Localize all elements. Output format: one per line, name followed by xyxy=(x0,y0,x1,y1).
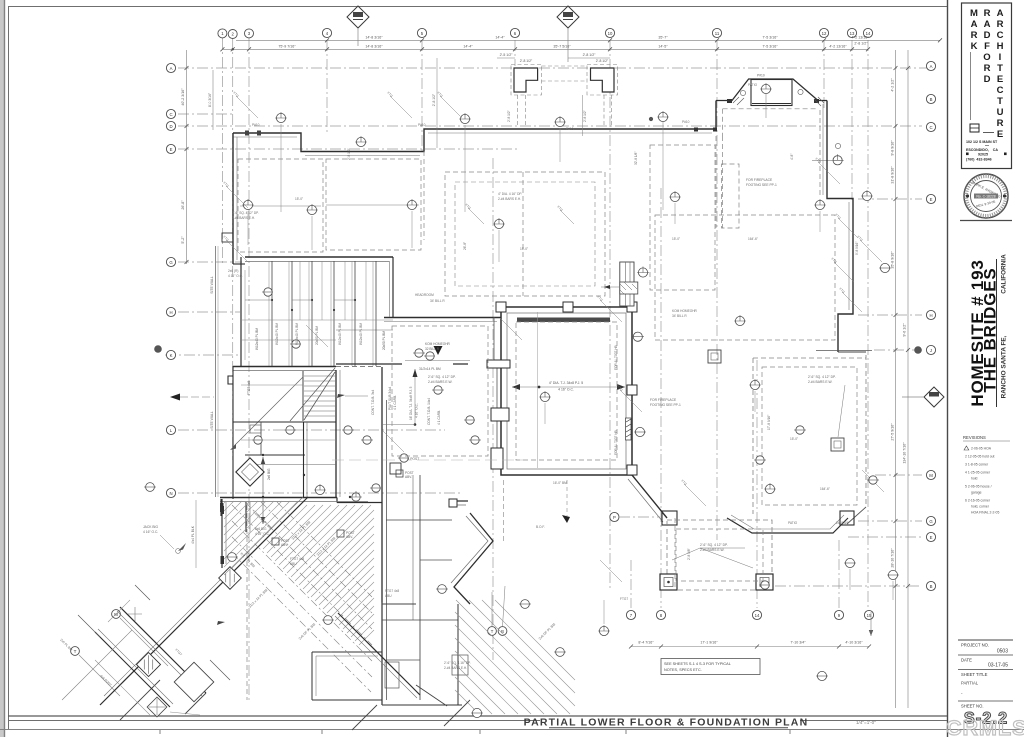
svg-text:JACK BIG: JACK BIG xyxy=(143,525,158,529)
svg-text:2'-6" SQ. 4 12" DP.: 2'-6" SQ. 4 12" DP. xyxy=(700,543,728,547)
svg-text:2'-8 1/2": 2'-8 1/2" xyxy=(583,110,587,122)
footing dashed right wall xyxy=(865,355,867,507)
svg-text:164'-6": 164'-6" xyxy=(748,237,758,241)
svg-text:14'-8 3/16": 14'-8 3/16" xyxy=(365,36,383,40)
stair run arrow extended xyxy=(234,377,303,446)
svg-text:ABU: ABU xyxy=(385,594,392,598)
deck joists lower field xyxy=(263,505,374,645)
FILLER DETAILS xyxy=(241,97,879,501)
project no section xyxy=(958,639,1013,641)
svg-text:A: A xyxy=(170,66,173,71)
svg-text:34' BILL R: 34' BILL R xyxy=(672,314,687,318)
svg-text:FTG7 4x8: FTG7 4x8 xyxy=(385,589,399,593)
grid bubbles right column xyxy=(926,61,935,590)
porch dashed outline xyxy=(667,520,772,590)
svg-text:A: A xyxy=(930,64,933,69)
svg-text:92025: 92025 xyxy=(978,153,988,157)
svg-text:P#10: P#10 xyxy=(566,127,574,131)
svg-text:27'-5 9/16": 27'-5 9/16" xyxy=(891,423,895,441)
svg-text:ESCONDIDO, CA: ESCONDIDO, CA xyxy=(966,148,998,152)
svg-text:H: H xyxy=(929,313,932,318)
deck leader arrow xyxy=(337,394,345,398)
svg-text:2'-8 1/2": 2'-8 1/2" xyxy=(432,93,436,106)
svg-text:FOOTING SEE PP-1: FOOTING SEE PP-1 xyxy=(650,403,681,407)
left border line xyxy=(8,6,10,729)
top dim ticks xyxy=(220,38,942,51)
pier bay right L-pier xyxy=(587,65,618,128)
svg-text:7'-10 3/4": 7'-10 3/4" xyxy=(790,641,806,645)
bay bottom angled wall xyxy=(727,518,848,533)
closet divider walls xyxy=(272,261,376,366)
svg-text:P: P xyxy=(613,515,616,520)
bottom border line B left segment xyxy=(8,720,540,722)
svg-text:HEADROOM: HEADROOM xyxy=(415,293,434,297)
svg-text:15'-0": 15'-0" xyxy=(295,197,303,201)
misc dashed connectors xyxy=(674,518,676,590)
closet dots xyxy=(271,299,356,311)
svg-text:C: C xyxy=(169,112,172,117)
svg-text:24'-8 3/4": 24'-8 3/4" xyxy=(836,521,849,525)
deck pier rotated square xyxy=(236,458,264,486)
svg-text:2-06-05 HOA: 2-06-05 HOA xyxy=(971,447,992,451)
svg-text:2-#4 BARS E.H.: 2-#4 BARS E.H. xyxy=(498,197,521,201)
svg-text:ABV.: ABV. xyxy=(346,535,353,539)
top connection xyxy=(336,366,382,368)
callout inner marks xyxy=(144,111,899,713)
svg-text:4 1-25-05 corner: 4 1-25-05 corner xyxy=(965,471,991,475)
top dim texts xyxy=(278,36,869,49)
right border line xyxy=(947,0,949,737)
svg-text:K: K xyxy=(170,353,173,358)
svg-text:PARTIAL: PARTIAL xyxy=(961,681,979,686)
great room outer wall xyxy=(501,307,632,475)
svg-text:2x6 BIG: 2x6 BIG xyxy=(267,468,271,480)
svg-text:HOA FINAL 2-2-05: HOA FINAL 2-2-05 xyxy=(971,511,999,515)
svg-text:2'-6" SQ. 4 12" DP.: 2'-6" SQ. 4 12" DP. xyxy=(428,375,456,379)
svg-text:T: T xyxy=(997,96,1003,107)
bottom border line A xyxy=(8,715,947,717)
svg-text:2'-8 1/2": 2'-8 1/2" xyxy=(583,53,597,57)
svg-text:FOR AL T007 HB: FOR AL T007 HB xyxy=(614,345,618,370)
block left wall mid with jogs xyxy=(228,366,233,499)
svg-text:31'-8 9/16": 31'-8 9/16" xyxy=(891,166,895,184)
svg-text:14: 14 xyxy=(755,613,760,618)
porch inner dashed xyxy=(676,529,763,581)
extra callouts row mid xyxy=(352,493,360,501)
kitchen bottom wall segments xyxy=(336,363,468,365)
filled marker at K xyxy=(154,345,162,353)
callout leaders xyxy=(248,122,893,624)
left thick wall lines xyxy=(381,367,383,705)
svg-text:B: B xyxy=(930,97,933,102)
top secondary dims xyxy=(497,57,610,59)
svg-text:FOR FIREPLACE: FOR FIREPLACE xyxy=(746,178,773,182)
kitchen dashed footing xyxy=(392,326,488,456)
svg-text:P/U/T SUB 34x4: P/U/T SUB 34x4 xyxy=(388,386,392,410)
svg-text:15'-0": 15'-0" xyxy=(790,437,798,441)
svg-text:K: K xyxy=(971,41,978,52)
post squares on beams xyxy=(272,538,279,545)
DIMENSIONS xyxy=(181,36,942,708)
svg-text:E: E xyxy=(997,129,1003,140)
grid lines horizontal (dash-dot) xyxy=(165,68,938,586)
deck area bubbles xyxy=(112,610,121,619)
TITLE BLOCK xyxy=(958,3,1013,728)
pier bay connecting dashes xyxy=(542,80,588,82)
left scan edge strip xyxy=(0,0,4,737)
corner stub diagonals xyxy=(78,585,230,680)
corner second diagonal wall xyxy=(95,632,170,707)
svg-text:9'-6 1/2": 9'-6 1/2" xyxy=(903,323,907,337)
svg-text:H: H xyxy=(169,310,172,315)
fixtures xyxy=(385,662,399,688)
svg-text:2'-6" SQ. 4 12" DP.: 2'-6" SQ. 4 12" DP. xyxy=(232,211,259,215)
svg-text:15'-0": 15'-0" xyxy=(672,237,680,241)
great room inner face xyxy=(507,313,626,469)
svg-text:CALIFORNIA: CALIFORNIA xyxy=(1001,254,1008,294)
svg-text:SITE WALL: SITE WALL xyxy=(210,411,214,429)
svg-text:75'-9 7/16": 75'-9 7/16" xyxy=(278,45,296,49)
grid bubbles top row xyxy=(218,28,873,38)
svg-text:D: D xyxy=(984,74,991,85)
grid bubbles left column xyxy=(166,63,175,497)
corner small rotated square xyxy=(147,697,167,717)
svg-text:35'-8 9/16": 35'-8 9/16" xyxy=(891,251,895,269)
svg-text:164'-6": 164'-6" xyxy=(820,487,830,491)
svg-text:4 16" O.C.: 4 16" O.C. xyxy=(255,532,270,536)
fireplace dashed rect xyxy=(722,164,740,228)
svg-text:P#10: P#10 xyxy=(682,120,690,124)
svg-text:9'-8 9/16": 9'-8 9/16" xyxy=(855,242,859,255)
left pier at wall xyxy=(222,233,233,242)
svg-text:31/2x14 PL BM: 31/2x14 PL BM xyxy=(419,367,441,371)
svg-text:W12x40 PL BM: W12x40 PL BM xyxy=(359,323,363,345)
inner horizontals xyxy=(386,519,452,521)
notes box xyxy=(661,659,760,675)
stair diagonal xyxy=(304,372,335,420)
svg-text:20x50 PL BM: 20x50 PL BM xyxy=(315,326,319,345)
leader from deck bubbles xyxy=(120,618,168,666)
svg-text:R: R xyxy=(997,118,1004,129)
svg-text:ABV.: ABV. xyxy=(405,475,412,479)
rule right of THE BRIDGES xyxy=(996,259,998,407)
svg-text:FOR FIREPLACE: FOR FIREPLACE xyxy=(650,398,677,402)
key diamond 1 xyxy=(347,6,369,46)
svg-text:E: E xyxy=(930,197,933,202)
second stub wall xyxy=(245,502,247,532)
parallel lower edge line xyxy=(62,630,132,700)
svg-text:M: M xyxy=(970,8,978,19)
svg-text:CONT. T.O.B. 3x4: CONT. T.O.B. 3x4 xyxy=(371,390,375,415)
left wall of deck corner xyxy=(221,499,223,568)
upper-left wing top wall xyxy=(233,101,716,152)
svg-text:3 1-8-05 corner: 3 1-8-05 corner xyxy=(965,463,989,467)
svg-text:R: R xyxy=(984,8,991,19)
svg-text:B.O.F.: B.O.F. xyxy=(536,525,545,529)
svg-text:REVISIONS: REVISIONS xyxy=(963,435,986,440)
patio dashed footing xyxy=(716,109,820,228)
svg-text:2'-5 1/2": 2'-5 1/2" xyxy=(500,53,514,57)
patio bay trapezoid xyxy=(716,79,827,101)
svg-text:2 12-05-05 hold out: 2 12-05-05 hold out xyxy=(965,455,994,459)
mid horizontal double wall xyxy=(233,366,336,368)
svg-text:FTG7 4x8: FTG7 4x8 xyxy=(290,557,304,561)
porch columns xyxy=(660,574,773,590)
corner lower walls xyxy=(120,680,160,720)
svg-text:P#10: P#10 xyxy=(252,123,260,127)
svg-text:4 16" O.C.: 4 16" O.C. xyxy=(143,530,158,534)
svg-text:A: A xyxy=(971,19,978,30)
svg-text:T: T xyxy=(74,649,77,654)
svg-text:16'-0" BM: 16'-0" BM xyxy=(553,481,567,485)
deck main edge diagonal xyxy=(100,497,308,705)
dense block thin lines xyxy=(241,261,366,440)
svg-text:hold, corner: hold, corner xyxy=(971,505,990,509)
svg-text:C: C xyxy=(929,125,932,130)
svg-text:E: E xyxy=(997,74,1003,85)
closet mid line xyxy=(241,319,393,321)
deck dim texts rotated xyxy=(239,510,556,641)
interior vertical arrow xyxy=(262,457,264,524)
column leader dims xyxy=(672,548,753,568)
svg-text:4 16" O.C.: 4 16" O.C. xyxy=(228,274,243,278)
svg-text:40'-2 3/16": 40'-2 3/16" xyxy=(181,88,185,106)
mid vertical double xyxy=(303,422,305,497)
patio chimney box xyxy=(751,80,792,106)
hall line xyxy=(245,464,336,466)
left exterior wall xyxy=(232,133,234,264)
svg-text:2-#4 BARS E.W.: 2-#4 BARS E.W. xyxy=(700,548,725,552)
stair left wall xyxy=(302,371,304,421)
svg-text:2-#4 BARS E.H.: 2-#4 BARS E.H. xyxy=(232,216,255,220)
dining room inner dashed xyxy=(762,367,857,505)
right big room footing xyxy=(655,215,835,340)
svg-text:26'-8": 26'-8" xyxy=(463,242,467,250)
grid bubble P xyxy=(610,512,619,521)
svg-text:P#10: P#10 xyxy=(418,123,426,127)
svg-text:0503: 0503 xyxy=(997,649,1008,655)
corner hatched pier xyxy=(136,652,160,676)
svg-text:W12x40 PL BM: W12x40 PL BM xyxy=(255,328,259,350)
bottom sheet edge line xyxy=(0,729,1024,731)
svg-text:5 2-06-05 house /: 5 2-06-05 house / xyxy=(965,485,992,489)
svg-text:E: E xyxy=(170,147,173,152)
svg-text:1/4"=1'-0": 1/4"=1'-0" xyxy=(856,720,876,725)
svg-text:SHEET TITLE: SHEET TITLE xyxy=(961,672,988,677)
svg-text:ABV.: ABV. xyxy=(281,543,288,547)
svg-text:4" DIA. T.J. 34x8 P.J. 5: 4" DIA. T.J. 34x8 P.J. 5 xyxy=(549,381,583,385)
RIGHT WING (mostly unexcavated - dashed) xyxy=(660,355,866,590)
plan title underline xyxy=(549,727,788,729)
deck beam dashed lines xyxy=(232,502,372,692)
nook bay zigzag wall xyxy=(452,501,493,604)
svg-text:2'-8 1/2": 2'-8 1/2" xyxy=(520,59,533,63)
upper-left wing top wall inner face xyxy=(233,133,712,156)
svg-text:35'-7 5/16": 35'-7 5/16" xyxy=(553,45,571,49)
svg-text:T: T xyxy=(997,63,1003,74)
svg-text:N: N xyxy=(169,491,172,496)
edge hatched pier xyxy=(219,567,242,590)
block right wall xyxy=(335,370,337,497)
svg-text:DATE: DATE xyxy=(961,658,972,663)
svg-text:7'-5 3/16": 7'-5 3/16" xyxy=(762,45,778,49)
svg-text:PARTIAL LOWER FLOOR & FOUNDATI: PARTIAL LOWER FLOOR & FOUNDATION PLAN xyxy=(524,717,809,729)
svg-text:4" DIA. 4 16" DP.: 4" DIA. 4 16" DP. xyxy=(498,192,522,196)
svg-text:SEE SHEETS S-1 4 S-3 FOR TYPIC: SEE SHEETS S-1 4 S-3 FOR TYPICAL xyxy=(664,662,731,666)
svg-text:4'-10 3/16": 4'-10 3/16" xyxy=(845,641,863,645)
circle right of patio xyxy=(835,143,840,148)
wall tick marks upper-left xyxy=(245,131,249,136)
bottom border line B right segment xyxy=(800,720,947,722)
architect seal xyxy=(964,174,1008,218)
room 2 footing xyxy=(326,159,421,250)
block top double wall xyxy=(245,256,393,258)
rooms bottom diagonal wall xyxy=(338,613,420,695)
svg-text:20x50 PL BM: 20x50 PL BM xyxy=(382,331,386,350)
svg-text:SHEET NO.: SHEET NO. xyxy=(961,704,984,709)
x437 dim line xyxy=(436,58,438,148)
key diamond 2 xyxy=(557,6,579,62)
EXTERIOR WALLS xyxy=(233,59,872,352)
vertical beam labels in dense block xyxy=(275,148,859,560)
inner verticals xyxy=(419,475,421,700)
long dashed line y460 xyxy=(332,459,528,461)
svg-text:35'-7": 35'-7" xyxy=(658,36,668,40)
block right wall upper xyxy=(392,257,394,317)
bottom dimension line xyxy=(631,646,869,648)
line under seal xyxy=(960,220,1012,222)
patio small circles xyxy=(740,90,745,95)
svg-text:KOM HOMEOHR: KOM HOMEOHR xyxy=(672,309,697,313)
kitchen circles xyxy=(434,386,442,394)
dining bay dashed outline xyxy=(753,358,866,514)
svg-text:14'-5": 14'-5" xyxy=(658,45,668,49)
DECK AREA xyxy=(59,360,660,730)
top border line xyxy=(8,6,947,8)
svg-text:J: J xyxy=(930,348,932,353)
svg-text:14'-8 3/16": 14'-8 3/16" xyxy=(365,45,383,49)
svg-text:14'-4": 14'-4" xyxy=(463,45,473,49)
svg-text:2'-6" SQ. 4 12" DP.: 2'-6" SQ. 4 12" DP. xyxy=(808,375,836,379)
stair diagonal 2 xyxy=(290,368,335,421)
svg-text:8'-0 3/16": 8'-0 3/16" xyxy=(208,92,212,107)
svg-text:R: R xyxy=(971,30,978,41)
rule under MARK xyxy=(970,52,972,120)
svg-text:7'-5 3/16": 7'-5 3/16" xyxy=(762,36,778,40)
svg-text:PATIO: PATIO xyxy=(788,521,798,525)
lower rooms xyxy=(260,422,262,455)
svg-text:KOM HOMEOHR: KOM HOMEOHR xyxy=(425,342,450,346)
svg-text:2'-6" SQ. 4 16" DP.: 2'-6" SQ. 4 16" DP. xyxy=(444,661,471,665)
svg-text:2'-8 1/2": 2'-8 1/2" xyxy=(854,42,868,46)
svg-text:32 BILL R: 32 BILL R xyxy=(425,347,440,351)
dim arrow right bottom xyxy=(869,630,873,636)
interior dim arrow in great room xyxy=(512,386,625,388)
svg-text:C: C xyxy=(997,85,1004,96)
small logo blocks xyxy=(970,124,979,132)
great room inner footing xyxy=(516,322,617,460)
svg-text:W12x40 PL BM: W12x40 PL BM xyxy=(295,323,299,345)
corridor arrow marker xyxy=(405,346,470,361)
svg-text:P#10: P#10 xyxy=(757,74,765,78)
site wall double line xyxy=(215,246,217,497)
bay diagonal corner xyxy=(847,507,866,524)
svg-text:4'-2 13/16": 4'-2 13/16" xyxy=(829,45,847,49)
svg-text:CONT. T.O.B. 14x4: CONT. T.O.B. 14x4 xyxy=(427,398,431,425)
top-center marks xyxy=(468,208,574,224)
svg-text:RANCHO SANTA FE,: RANCHO SANTA FE, xyxy=(1001,335,1008,398)
svg-text:NOTES, SPECS ETC.: NOTES, SPECS ETC. xyxy=(664,668,702,672)
block left wall upper xyxy=(240,257,242,366)
grid bubbles bottom row xyxy=(626,610,873,619)
great room corner diagonal wall xyxy=(632,475,667,518)
left dim leaders near wall xyxy=(195,500,197,568)
small arrow marker mid xyxy=(562,515,570,523)
svg-text:B: B xyxy=(930,584,933,589)
svg-text:R: R xyxy=(997,19,1004,30)
center dim between piers xyxy=(582,95,584,136)
right exterior wall upper xyxy=(827,101,853,353)
svg-text:4'x4 PL BLK: 4'x4 PL BLK xyxy=(191,525,195,544)
DASHED FOOTINGS xyxy=(238,145,857,700)
bay bottom piers xyxy=(662,511,677,525)
svg-text:10: 10 xyxy=(608,31,613,36)
svg-text:9'-8 9/16": 9'-8 9/16" xyxy=(891,140,895,156)
kitchen top wall xyxy=(384,317,501,319)
bottom center bubble pair xyxy=(488,627,497,636)
deck joists east zone xyxy=(455,600,575,714)
BATH/STAIR MID BLOCK xyxy=(312,367,468,707)
grid lines vertical (dash-dot) xyxy=(222,38,868,700)
svg-text:PROJECT NO.: PROJECT NO. xyxy=(961,643,989,648)
svg-text:2'-8 1/2": 2'-8 1/2" xyxy=(507,110,511,122)
patio bay corner hatches xyxy=(733,97,824,106)
bay point dashed riser xyxy=(503,480,505,543)
svg-text:ABU: ABU xyxy=(290,562,297,566)
svg-text:H: H xyxy=(997,41,1004,52)
svg-text:4 16" O.C.: 4 16" O.C. xyxy=(415,403,419,418)
great room wall piers xyxy=(487,360,510,368)
svg-text:2-#4 BARS E.H.: 2-#4 BARS E.H. xyxy=(444,666,467,670)
svg-text:2'-8 5/8": 2'-8 5/8" xyxy=(687,548,691,560)
svg-text:W12x40 PL BM: W12x40 PL BM xyxy=(275,323,279,345)
left boundary into deck xyxy=(220,499,222,516)
site wall arrow xyxy=(170,394,180,401)
wall y422 xyxy=(233,421,336,423)
svg-text:102 1/2 S MAIN ST: 102 1/2 S MAIN ST xyxy=(966,140,998,144)
dense block extra beam labels xyxy=(247,328,386,480)
GREAT ROOM WALLS xyxy=(384,302,667,522)
svg-text:(760) 432-8346: (760) 432-8346 xyxy=(966,158,992,162)
svg-text:CRMLS: CRMLS xyxy=(946,716,1024,737)
dense block dots xyxy=(262,454,351,498)
nook bay corner pier xyxy=(449,499,457,507)
center room footings xyxy=(445,172,605,296)
svg-text:2'-8 1/2": 2'-8 1/2" xyxy=(596,59,609,63)
svg-text:34' BILL R: 34' BILL R xyxy=(430,299,445,303)
deck joists upper field xyxy=(224,501,298,575)
UPPER-LEFT INTERIOR BLOCK xyxy=(170,70,393,524)
filled marker at J xyxy=(914,346,922,354)
bottom double wall xyxy=(220,497,337,499)
corner dim cross xyxy=(128,607,142,621)
svg-text:8'-4 7/16": 8'-4 7/16" xyxy=(638,641,654,645)
FIREPLACE DETAILS xyxy=(428,262,845,451)
svg-text:FTG7: FTG7 xyxy=(620,597,628,601)
svg-text:15'-0": 15'-0" xyxy=(520,247,528,251)
svg-text:11: 11 xyxy=(715,31,720,36)
svg-text:2'-8 1/2": 2'-8 1/2" xyxy=(347,148,351,160)
